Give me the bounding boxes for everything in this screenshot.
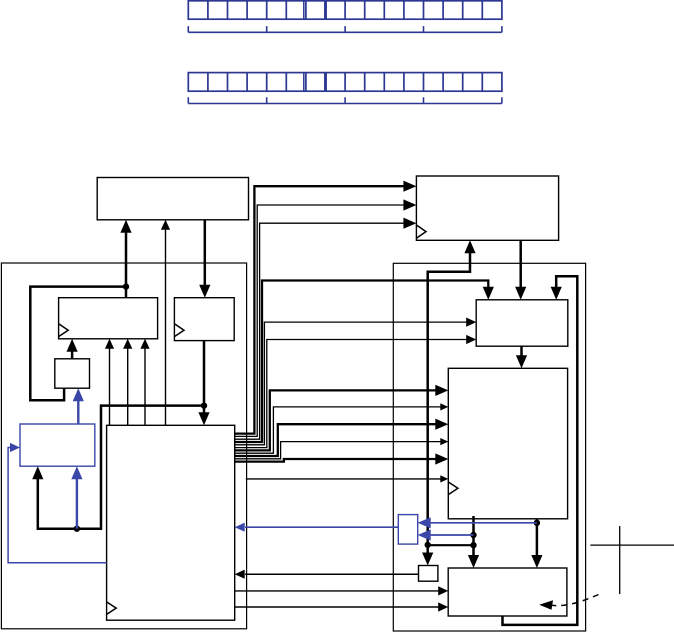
wire: lower block loopback up to inner top-right block [503, 276, 578, 625]
arrowhead into register B top [199, 285, 210, 298]
clock marker U2 [416, 225, 426, 238]
big left block FSM [107, 425, 235, 620]
wire: big right block output A down to lower block [472, 516, 475, 560]
register A [59, 298, 158, 339]
arrowhead into U2 bottom [464, 240, 475, 253]
bit register row 2: boundary double-line marker [303, 73, 305, 92]
bundle wire 2: big left block to U2 input at y=205.0 [235, 205, 408, 436]
blue arrowhead into sync box right edge upper [418, 517, 431, 528]
arrowhead bundle wire 2 [403, 199, 416, 210]
arrowhead output B into lower block [531, 555, 542, 568]
blue arrowhead into blue block left edge [10, 443, 20, 452]
register B [174, 298, 234, 341]
junction node output A / black link [470, 542, 476, 548]
bundle wire 3: big left block to U2 input at y=223.2 [235, 223, 408, 439]
blue arrowhead into S1 bottom [73, 388, 84, 401]
bit register row 2: nibble-group bracket [188, 97, 502, 103]
big right block [448, 368, 567, 519]
wire: register B output down to big left block with branch to blue block [203, 341, 206, 415]
crosshair registration mark [590, 526, 674, 594]
junction node output B / blue [534, 520, 540, 526]
wire: register A output up to U1 with feedback branch to S1 [125, 231, 128, 298]
wire: S1 output up to register A [71, 349, 74, 359]
bundle wire 6: big left block to inner top-right block input at y=339.5 [235, 340, 471, 448]
wire: junction horizontal link [428, 544, 474, 546]
wire: big left block to register A bit line 1 [109, 347, 111, 425]
arrowhead lowest input [440, 475, 448, 482]
blue arrowhead into big left block right edge [235, 523, 245, 532]
lower right block [448, 568, 567, 616]
junction node register B branch [201, 402, 207, 408]
blue arrowhead into sync box right edge lower [418, 529, 431, 540]
arrowhead into U1 bottom [120, 220, 131, 233]
junction node blue tap [74, 526, 80, 532]
bundle wire 4: big left block to inner top-right block top [235, 281, 489, 443]
blue wire: output A to blue sync box [428, 534, 474, 536]
bundle wire 7: big left block to big right block input at y=390.4 [235, 390, 440, 450]
arrowhead bundle wire 3 [403, 218, 416, 229]
arrowhead output A into lower block [468, 555, 479, 568]
wire: big left block status up to U1 [165, 229, 167, 425]
bundle wire 10: big left block to big right block input at y=441.6 [235, 442, 443, 459]
left clock-domain container [1, 263, 246, 629]
arrowhead bundle wire 1 [403, 181, 416, 192]
blue handshake block [20, 424, 95, 466]
clock marker register A [59, 324, 69, 337]
wire: big left block to register A bit line 3 [144, 347, 146, 425]
arrowhead into S2 top [422, 553, 433, 566]
arrowhead bundle wire 4 [483, 287, 494, 300]
block U1 top-left [97, 178, 248, 220]
bit register row 1: boundary double-line marker [303, 1, 305, 19]
annotation arrowhead [539, 600, 553, 610]
wire: junction down into S2 box [426, 545, 429, 557]
bit register row 2: 16-bit shift register cells [188, 73, 502, 92]
arrowhead line 2 into lower block [438, 602, 448, 611]
arrowhead line 1 into lower block [438, 586, 448, 595]
right clock-domain container [393, 263, 585, 631]
arrowhead bundle wire 9 [435, 419, 448, 430]
arrowhead bundle wire 6 [466, 335, 476, 344]
arrowhead into big right block top [516, 355, 527, 368]
arrowhead bundle wire 7 [435, 385, 448, 396]
blue wire: tap up into blue block bottom [76, 477, 78, 529]
arrowhead bundle wire 5 [466, 318, 476, 327]
small box S2 right [419, 566, 438, 582]
wire: big left block to lower right block line 2 [235, 606, 443, 608]
small box S1 left [55, 359, 90, 388]
wire: U2 output down to inner top-right block [519, 240, 522, 291]
blue wire: blue block output up to S1 [77, 398, 79, 424]
bit register row 1: nibble-group bracket [188, 26, 502, 32]
bundle wire 8: big left block to big right block input at y=406.9 [235, 407, 443, 453]
junction node output A / blue [470, 532, 476, 538]
wire: straight thin line to big right block lowest input [246, 478, 443, 480]
blue wire: output B to blue sync box [428, 522, 537, 524]
arrowhead into register A bottom [67, 339, 78, 352]
wire: S2 output to big left block [245, 573, 419, 575]
wire: big right block output B down to lower block [536, 519, 539, 560]
wire: big left block to register A bit line 2 [127, 347, 129, 425]
arrowhead bit line 3 [140, 339, 149, 349]
blue wire: feedback loop from big left block to blue block left [8, 448, 107, 563]
arrowhead (black) into blue block bottom [32, 466, 43, 479]
bundle wire 5: big left block to inner top-right block input at y=322.1 [235, 322, 471, 445]
bundle wire 11: big left block to big right block input at y=459.0 [235, 459, 440, 462]
arrowhead bundle wire 8 [440, 403, 448, 410]
wire: riser from S2 junction up into U2 bottom [428, 249, 470, 545]
clock marker register B [174, 324, 184, 337]
arrowhead into big left block top [198, 412, 209, 425]
arrowhead into U1 bottom (thin) [161, 220, 170, 230]
block U2 top-right [416, 176, 558, 240]
bundle wire 9: big left block to big right block input at y=424.2 [235, 424, 440, 456]
bit register row 1: 16-bit shift register cells [188, 1, 502, 19]
blue arrowhead into blue block bottom [71, 466, 82, 479]
arrowhead bit line 2 [123, 339, 132, 349]
inner top-right block [476, 300, 568, 346]
wire: U1 output down to register B [204, 220, 207, 287]
blue wire: sync box output to big left block [245, 526, 398, 528]
junction node on register A output [123, 283, 129, 289]
arrowhead loopback into inner block top [551, 287, 562, 300]
bundle wire 1: big left block to U2 input at y=186.2 [235, 186, 408, 433]
dashed annotation arrow into lower right block [552, 595, 599, 606]
clock marker big left block [107, 602, 117, 615]
clock marker big right block [448, 482, 458, 495]
arrowhead bit line 1 [105, 339, 114, 349]
arrowhead bundle wire 10 [440, 438, 448, 445]
wire: inner top-right block down to big right block [520, 346, 523, 360]
blue sync box [398, 515, 417, 545]
junction node riser bottom [425, 542, 431, 548]
arrowhead bundle wire 11 [435, 453, 448, 464]
wire: big left block to lower right block line 1 [235, 590, 443, 592]
arrowhead into inner block top [515, 287, 526, 300]
arrowhead S2 into big left block right edge [235, 570, 245, 579]
